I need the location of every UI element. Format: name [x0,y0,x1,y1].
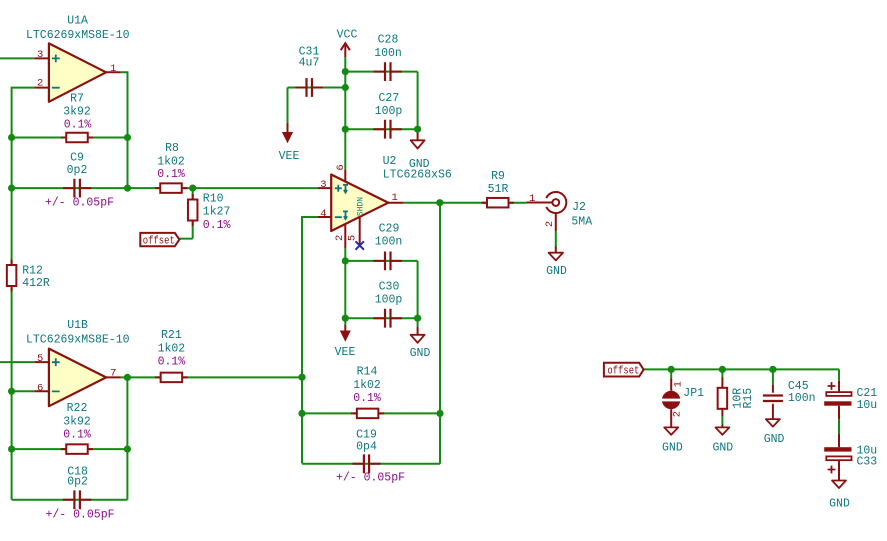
junction R14 left [298,410,305,417]
svg-text:412R: 412R [22,277,50,290]
svg-text:0p4: 0p4 [356,441,377,454]
wire R15 stub [721,369,723,377]
resistor R10 [188,192,231,232]
power VCC [337,29,358,58]
svg-text:3: 3 [320,179,326,191]
wire C30 right to GND [417,318,419,327]
svg-text:2: 2 [671,411,683,417]
junction C27 left [342,126,349,133]
wire U2 pin2 to V- rail [344,248,346,325]
svg-text:0.1%: 0.1% [157,168,185,181]
svg-text:1k27: 1k27 [203,206,231,219]
capacitor C9 [45,151,114,209]
svg-text:3k92: 3k92 [63,416,91,429]
svg-text:6: 6 [335,164,347,170]
wire C29-C30 right vertical [417,261,419,318]
junction R15 [719,366,726,373]
capacitor C31 [296,46,324,97]
svg-text:VEE: VEE [335,346,356,359]
capacitor C18 [45,465,114,521]
capacitor C19 [336,429,405,485]
svg-text:0p2: 0p2 [67,164,88,177]
junction VCC/C28 [342,68,349,75]
svg-text:5MA: 5MA [571,215,592,228]
svg-text:R14: R14 [357,366,378,379]
svg-text:C9: C9 [70,151,84,164]
svg-text:100p: 100p [375,293,403,306]
svg-text:GND: GND [546,265,567,278]
no-connect X on pin 5 [356,241,364,249]
svg-text:100n: 100n [375,235,403,248]
junction C9 right [124,185,131,192]
svg-text:R10: R10 [203,192,224,205]
junction JP1 [668,366,675,373]
junction U1B out [124,374,131,381]
svg-text:100n: 100n [788,392,816,405]
svg-text:1k02: 1k02 [158,343,186,356]
junction R8/R10 [189,185,196,192]
svg-text:1: 1 [529,193,535,205]
svg-text:0.1%: 0.1% [158,356,186,369]
resistor R21 [155,329,188,382]
junction R7 right [124,134,131,141]
ground GND (C30 right) [410,327,431,360]
svg-text:3k92: 3k92 [63,105,91,118]
wire C27 row [345,128,417,130]
svg-text:4u7: 4u7 [299,56,320,69]
svg-text:2: 2 [334,235,346,241]
junction C27 right [414,126,421,133]
svg-text:5: 5 [347,235,359,241]
wire C9 row to U2 pin3 [12,187,318,189]
wire C31 to VEE [287,88,289,124]
svg-text:R15: R15 [742,388,755,409]
capacitor C30 [374,280,403,327]
wire R15 lower stub [721,416,723,425]
wire J2 pin2 to GND [555,231,557,248]
ground GND (C45) [764,419,785,446]
op-amp U1A [26,15,130,102]
junction U2 out [436,199,443,206]
svg-text:6: 6 [37,382,43,394]
junction R7 left [8,134,15,141]
wire C30 row [345,317,417,319]
svg-text:C27: C27 [379,92,400,105]
capacitor C29 [374,222,403,270]
wire U1A output down [121,72,128,188]
ground GND (JP1) [662,427,683,454]
power VEE (left) [279,123,300,163]
pin6 V+ arrow [343,185,348,193]
wire R14 row [302,412,440,414]
svg-text:R12: R12 [22,265,43,278]
junction R14 right [436,410,443,417]
svg-text:VCC: VCC [337,29,358,42]
wire input to U1B pin5 [0,361,34,363]
label offset (left) [140,233,179,248]
capacitor C45 [763,380,816,419]
svg-text:10u: 10u [857,399,878,412]
junction C29 left [342,257,349,264]
wire U2 output to R9 to J2 [403,202,527,204]
svg-text:LTC6269xMS8E-10: LTC6269xMS8E-10 [26,334,130,347]
wire U1B out to R21 to node [121,376,302,378]
svg-text:0p2: 0p2 [67,475,88,488]
svg-text:GND: GND [829,498,850,511]
svg-text:0.1%: 0.1% [203,219,231,232]
junction C45 [769,366,776,373]
op-amp U2 [317,155,452,248]
capacitor C28 [374,34,403,82]
svg-text:offset: offset [143,236,175,248]
resistor R7 [61,92,93,142]
ground GND (J2) [546,247,567,278]
svg-text:51R: 51R [488,183,509,196]
svg-text:GND: GND [764,433,785,446]
wire U2 pin4 loop [302,217,317,463]
svg-text:1k02: 1k02 [353,379,381,392]
wire offset2 rail [643,368,839,370]
svg-text:3: 3 [37,49,43,61]
svg-text:4: 4 [320,208,326,220]
svg-text:1: 1 [391,192,397,204]
wire C28-C27 right vertical [417,72,419,130]
svg-text:7: 7 [110,368,116,380]
ground GND (C33) [829,481,850,511]
svg-text:GND: GND [410,347,431,360]
wire C21-C33 middle [838,419,840,434]
svg-text:LTC6268xS6: LTC6268xS6 [383,168,452,181]
capacitor C33 (polarized) [824,434,877,481]
svg-text:J2: J2 [572,201,586,214]
junction R22 right [124,446,131,453]
svg-text:offset: offset [607,366,639,378]
wire JP1 stub [670,369,672,378]
svg-text:0.1%: 0.1% [64,118,92,131]
junction R22 left [8,446,15,453]
wire C19 row [302,463,440,465]
wire C31 row [288,87,346,89]
junction C30 right [414,315,421,322]
svg-text:C33: C33 [857,456,878,469]
resistor R22 [61,402,93,454]
resistor R12 [7,260,50,292]
svg-text:100p: 100p [375,105,403,118]
wire input to U1A pin3 [0,57,34,59]
svg-text:R22: R22 [67,402,88,415]
pin 5 [359,218,361,245]
svg-text:R8: R8 [165,142,179,155]
junction C31 [342,84,349,91]
svg-text:C30: C30 [379,280,400,293]
capacitor C21 (polarized) [824,381,877,420]
capacitor C27 [374,92,403,139]
svg-text:2: 2 [544,221,556,227]
svg-text:0.1%: 0.1% [63,429,91,442]
svg-text:0.1%: 0.1% [353,392,381,405]
wire VCC rail vertical [344,57,346,170]
resistor R8 [155,142,187,193]
wire C45 stub [772,369,774,384]
wire U1A pin2 to left vertical [12,88,35,500]
wire C21 top stub [838,369,840,380]
label offset (right) [604,363,644,378]
svg-text:SHDN: SHDN [357,197,366,216]
pin2 V- arrow [343,211,348,219]
wire R22 row [12,448,128,450]
svg-text:R9: R9 [491,170,505,183]
op-amp U1B [26,319,130,406]
junction C30 left [342,315,349,322]
svg-text:R7: R7 [70,92,84,105]
junction C9 left [8,185,15,192]
junction U1B pin6 [8,388,15,395]
svg-text:U2: U2 [383,155,397,168]
svg-text:+/- 0.05pF: +/- 0.05pF [45,196,114,209]
power VEE (below C30 left) [335,325,356,359]
wire R10 branch [192,188,194,239]
connector J2 [527,192,593,231]
svg-text:1: 1 [110,63,116,75]
svg-text:+/- 0.05pF: +/- 0.05pF [45,508,114,521]
svg-text:JP1: JP1 [683,387,704,400]
pin 6 [344,170,346,182]
svg-text:R21: R21 [161,329,182,342]
resistor R9 [482,170,515,207]
wire R7 row [12,137,128,139]
wire U1B out down [126,377,128,499]
svg-text:2: 2 [37,78,43,90]
resistor R14 [351,366,384,419]
svg-text:C28: C28 [378,34,399,47]
wire offset label to R10 [180,238,193,240]
svg-text:LTC6269xMS8E-10: LTC6269xMS8E-10 [26,29,130,42]
wire U2 output feedback vertical [439,203,441,464]
wire C18 row [12,499,128,501]
pin 2 [344,224,346,248]
svg-text:1k02: 1k02 [157,156,185,169]
svg-text:U1A: U1A [67,15,88,28]
ground GND (C27 right) [409,129,430,171]
svg-text:5: 5 [37,353,43,365]
svg-text:100n: 100n [374,47,402,60]
jumper JP1 [660,378,704,427]
resistor R15 [718,378,755,417]
wire U1B pin6 to left vertical [12,390,35,392]
svg-text:C29: C29 [379,222,400,235]
svg-text:U1B: U1B [67,319,88,332]
svg-text:GND: GND [712,441,733,454]
ground GND (R15) [712,425,733,455]
svg-text:VEE: VEE [279,150,300,163]
svg-text:GND: GND [662,441,683,454]
wire C29 row [345,260,417,262]
wire C28 row [345,71,417,73]
svg-text:+/- 0.05pF: +/- 0.05pF [336,471,405,484]
junction R21/R14 node [298,374,305,381]
